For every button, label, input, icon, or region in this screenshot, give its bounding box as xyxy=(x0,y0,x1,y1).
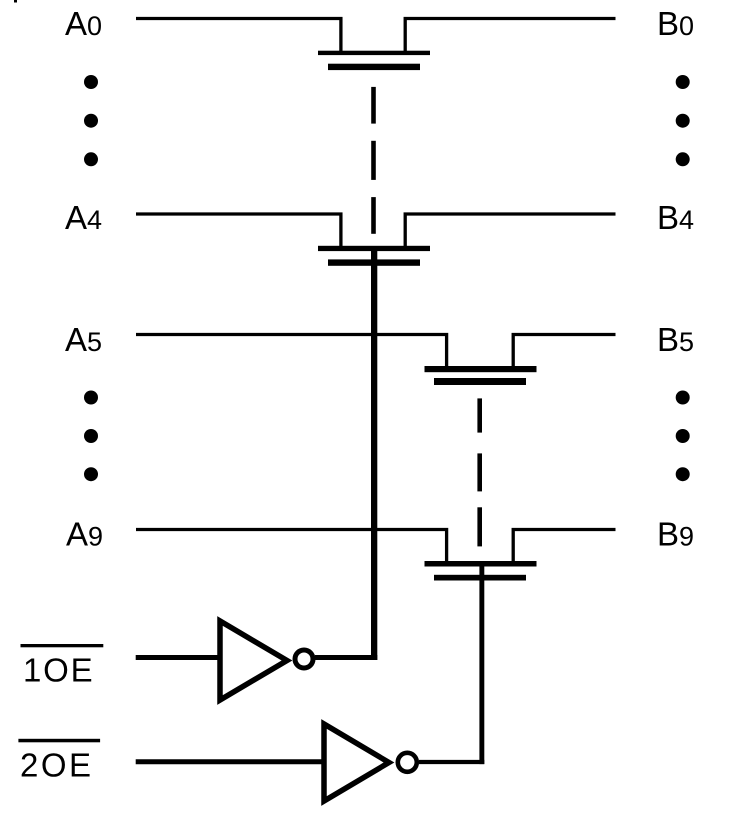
svg-text:A0: A0 xyxy=(65,5,102,42)
svg-text:2OE: 2OE xyxy=(20,746,94,783)
svg-text:A9: A9 xyxy=(66,516,103,553)
svg-text:A5: A5 xyxy=(65,321,102,358)
svg-text:A4: A4 xyxy=(65,199,102,236)
svg-text:1OE: 1OE xyxy=(23,652,94,689)
svg-text:B9: B9 xyxy=(657,516,694,553)
svg-text:B5: B5 xyxy=(657,321,694,358)
svg-text:B0: B0 xyxy=(657,5,694,42)
svg-text:B4: B4 xyxy=(657,199,694,236)
